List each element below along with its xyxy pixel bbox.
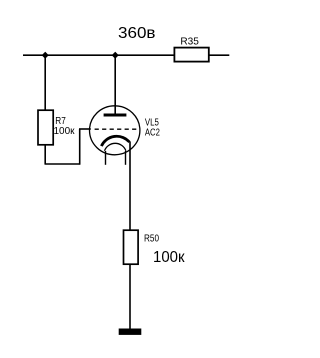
- resistor R35: [174, 37, 208, 62]
- wire R7 bottom down segment: [44, 145, 46, 165]
- wire grid riser vertical segment: [79, 129, 81, 165]
- wire grid lead horizontal segment: [79, 128, 91, 130]
- svg-text:AC2: AC2: [145, 128, 160, 139]
- heater pin left: [105, 151, 107, 165]
- svg-text:R35: R35: [180, 37, 199, 48]
- tube envelope: [90, 106, 140, 155]
- svg-text:100к: 100к: [153, 249, 185, 266]
- vacuum tube VL5: [90, 55, 140, 165]
- resistor R7: [38, 110, 53, 145]
- wire R50 to ground: [129, 264, 131, 330]
- resistor R50: [124, 230, 139, 264]
- wire rail to R7: [44, 55, 46, 110]
- svg-text:100к: 100к: [54, 126, 75, 137]
- wire R35 output segment: [209, 54, 229, 56]
- wire cathode to R50: [129, 142, 131, 231]
- ground: [119, 329, 142, 335]
- heater arc: [105, 143, 126, 150]
- junction at R7 branch: [42, 52, 48, 58]
- svg-text:R50: R50: [144, 233, 159, 244]
- wire top rail left segment: [23, 54, 174, 56]
- junction at anode branch: [112, 52, 118, 58]
- grid dashed line: [95, 128, 140, 130]
- cathode arc: [101, 136, 129, 146]
- svg-text:360в: 360в: [118, 25, 156, 42]
- wire bottom horizontal segment to grid riser: [45, 163, 80, 165]
- svg-text:R7: R7: [55, 116, 66, 127]
- anode lead wire: [114, 55, 116, 114]
- heater pin right: [125, 151, 127, 165]
- anode plate: [104, 114, 127, 117]
